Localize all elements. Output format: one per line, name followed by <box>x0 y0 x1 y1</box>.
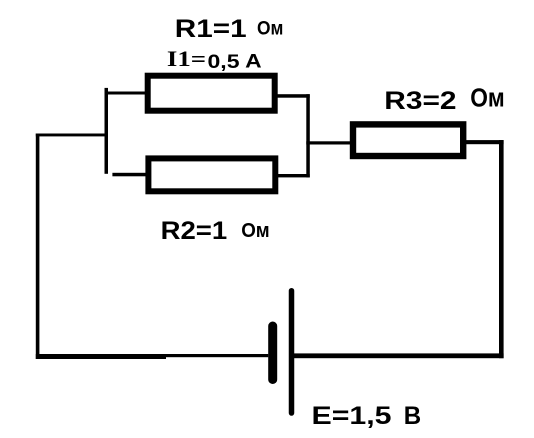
svg-text:В: В <box>404 402 421 430</box>
wire: left bus vertical <box>105 88 109 174</box>
battery E negative plate (short thick) <box>268 326 277 380</box>
svg-text:0,5: 0,5 <box>208 52 241 73</box>
wire: left vertical <box>36 134 40 359</box>
battery E positive plate (long thin) <box>289 291 295 413</box>
wire: R2 right lead <box>276 174 310 177</box>
svg-text:I1=: I1= <box>167 46 206 71</box>
wire: R1 left lead <box>105 92 148 95</box>
wire: lead from bus to R3 <box>306 141 352 144</box>
resistor R2 <box>148 158 275 191</box>
wire: right bus vertical <box>306 94 310 177</box>
svg-text:А: А <box>245 51 262 72</box>
resistor R1 <box>148 76 275 111</box>
wire: top-left horizontal <box>36 134 108 137</box>
wire: R3 right lead <box>465 140 504 144</box>
wire: bottom left horizontal (thin part to battery) <box>164 354 268 357</box>
svg-text:Ом: Ом <box>257 17 283 39</box>
resistor R3 <box>353 124 463 156</box>
wire: bottom left horizontal (thick part) <box>36 354 166 359</box>
wire: right vertical <box>499 140 504 358</box>
svg-text:R3=2: R3=2 <box>384 87 456 115</box>
svg-text:R2=1: R2=1 <box>161 217 228 245</box>
wire: R2 left lead <box>112 173 148 177</box>
svg-text:E=1,5: E=1,5 <box>312 402 392 430</box>
wire: R1 right lead <box>276 94 310 98</box>
svg-text:Ом: Ом <box>241 219 270 242</box>
wire: bottom right horizontal <box>292 353 504 358</box>
svg-text:R1=1: R1=1 <box>175 15 247 43</box>
svg-text:Ом: Ом <box>470 85 505 113</box>
